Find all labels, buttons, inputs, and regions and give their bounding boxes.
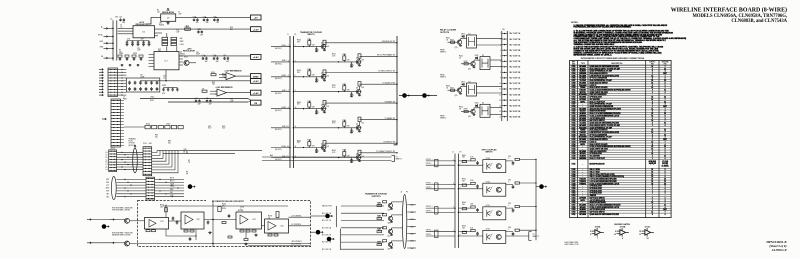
svg-text:R1: R1: [157, 10, 159, 12]
svg-text:SP7800E: SP7800E: [579, 99, 586, 101]
connector E1 (line rows): [109, 150, 117, 172]
svg-text:U731: U731: [572, 137, 576, 139]
svg-text:16: 16: [651, 169, 653, 171]
capacitor C54: [145, 87, 148, 91]
svg-text:Q3: Q3: [321, 143, 323, 145]
wire U22 down: [195, 229, 197, 240]
resistor R92 (opto 2): [471, 182, 475, 184]
svg-text:10: 10: [499, 83, 501, 85]
svg-text:RES: RES: [100, 47, 103, 49]
svg-text:R236: R236: [222, 204, 226, 206]
svg-text:U749: U749: [486, 158, 490, 160]
OCI bus pin numbers: [453, 159, 461, 236]
svg-text:L3+: L3+: [105, 162, 108, 164]
label TCI input 7: [275, 146, 288, 151]
resistor R102: [515, 182, 519, 184]
svg-text:SHEET 2: SHEET 2: [396, 159, 403, 161]
TCI bus top labels: [287, 34, 297, 36]
svg-text:U727: U727: [572, 127, 576, 129]
svg-text:10K: 10K: [361, 59, 364, 61]
label TCI input 8: [275, 156, 288, 161]
wire opto 3 out: [506, 207, 513, 209]
opto input terminal 2: [435, 183, 438, 191]
capacitor C231: [172, 217, 175, 221]
svg-text:8: 8: [652, 137, 653, 139]
svg-text:OUTPUTS: OUTPUTS: [371, 196, 381, 198]
svg-text:47K: 47K: [312, 107, 315, 109]
wire TCO input 1: [341, 205, 384, 207]
svg-text:R306: R306: [342, 120, 346, 122]
wire TCO output: [407, 247, 416, 249]
svg-text:U751: U751: [486, 205, 490, 207]
svg-text:20,21(8): 20,21(8): [662, 163, 668, 165]
wire opto 4 to collector: [519, 229, 536, 231]
svg-text:U703: U703: [572, 71, 576, 73]
svg-text:+9.6V REFERENCE: +9.6V REFERENCE: [224, 71, 242, 73]
junction OCI 7: [454, 231, 455, 232]
capacitor C232: [176, 221, 179, 225]
flag 7 (DC remote): [102, 224, 109, 229]
capacitor C91: [476, 161, 479, 165]
svg-text:11: 11: [664, 205, 666, 207]
svg-text:Q33: Q33: [378, 229, 381, 231]
junction row2-6 a: [130, 193, 131, 194]
svg-text:+2.4V REFERENCE: +2.4V REFERENCE: [215, 86, 233, 89]
net flag +4.8V: [251, 55, 262, 60]
transistor input cell 3: [293, 69, 397, 82]
svg-text:U757: U757: [572, 205, 576, 207]
svg-text:POSITIVE WIRE 1 SELECTED: POSITIVE WIRE 1 SELECTED: [112, 207, 134, 209]
svg-text:U717: U717: [572, 104, 576, 106]
wire into Q22: [114, 242, 124, 244]
wire J1-4: [121, 109, 125, 111]
wire TCI input 4: [271, 91, 290, 93]
svg-text:330: 330: [230, 29, 233, 31]
svg-text:.1: .1: [318, 80, 319, 82]
svg-text:.1UF: .1UF: [230, 100, 234, 102]
resistor R235: [190, 230, 194, 232]
svg-text:R101: R101: [211, 72, 215, 74]
junction OCI 3: [454, 184, 455, 185]
wire row1-1: [117, 151, 143, 153]
flag 8b: [316, 230, 323, 235]
resistor R241: [268, 234, 272, 236]
svg-text:1: 1: [652, 106, 653, 108]
svg-text:+2.4V: +2.4V: [253, 92, 259, 95]
wire TCI input 3: [271, 76, 290, 78]
decoupling capacitor bank outline: [126, 78, 160, 92]
opto input terminal 1: [435, 159, 438, 167]
svg-text:47K: 47K: [347, 60, 350, 62]
svg-text:SHEET 4: SHEET 4: [440, 118, 446, 120]
capacitor C56: [156, 87, 159, 91]
capacitor C42: [134, 81, 137, 85]
svg-text:Q48: Q48: [388, 222, 391, 224]
resistor R242: [274, 234, 278, 236]
svg-text:LM78M05: LM78M05: [579, 115, 586, 117]
svg-text:.1: .1: [508, 158, 509, 160]
svg-text:LINE 2 -: LINE 2 -: [282, 90, 288, 92]
svg-text:.1UF: .1UF: [216, 22, 219, 24]
label TCI input 6: [275, 126, 288, 131]
resistor R98 (opto 4): [462, 231, 466, 233]
svg-text:R220: R220: [146, 124, 150, 126]
capacitor pair C63/C64: [206, 98, 212, 106]
junction OCI 5: [454, 207, 455, 208]
svg-text:U706: U706: [572, 78, 576, 80]
svg-text:+4.8V: +4.8V: [253, 56, 259, 59]
capacitor C235: [189, 237, 192, 241]
svg-text:U732: U732: [572, 139, 576, 141]
relay ladder pin numbers: [499, 33, 501, 118]
svg-text:11: 11: [499, 89, 501, 91]
resistor R243: [222, 222, 226, 224]
svg-text:U21: U21: [160, 221, 163, 223]
capacitor row under U1: [126, 41, 151, 46]
junction SW B+: [112, 36, 113, 37]
label rail1: [150, 97, 154, 99]
capacitor C43: [139, 81, 142, 85]
svg-text:1: 1: [652, 73, 653, 75]
svg-text:L1+: L1+: [105, 152, 108, 154]
svg-text:LINE 4 +: LINE 4 +: [281, 146, 287, 148]
wire ref B in1: [210, 90, 217, 92]
svg-text:R321: R321: [332, 85, 336, 87]
svg-text:R311: R311: [332, 54, 336, 56]
capacitor pair C33/C34: [213, 55, 219, 63]
svg-text:R304: R304: [342, 84, 346, 86]
svg-text:OPTO 2 +: OPTO 2 +: [426, 183, 433, 185]
flag 8a: [325, 214, 332, 219]
svg-text:RX HI: RX HI: [170, 178, 175, 180]
capacitor C46: [156, 81, 159, 85]
svg-text:7: 7: [665, 212, 666, 214]
svg-text:INTEGRATED CIRCUIT POWER AND G: INTEGRATED CIRCUIT POWER AND GROUND CONN…: [581, 57, 645, 60]
svg-text:TX SQUELCH RX: TX SQUELCH RX: [383, 82, 395, 84]
junction J2-6: [121, 83, 122, 84]
pin arrow J2-9: [99, 91, 103, 93]
label R84: [166, 124, 170, 126]
svg-text:C67: C67: [195, 98, 198, 100]
capacitor C94: [476, 232, 479, 236]
op-amp inside U21: [149, 220, 156, 228]
svg-text:R33: R33: [212, 82, 215, 84]
svg-text:12: 12: [664, 179, 666, 181]
svg-text:47K: 47K: [347, 90, 350, 92]
relay cell K1: [448, 33, 502, 49]
svg-text:POSITIVE WIRE 1 KEYED: POSITIVE WIRE 1 KEYED: [112, 209, 131, 211]
regulator IC U2: [154, 52, 179, 70]
net flag +2.4V: [251, 90, 262, 95]
svg-text:.02UF: .02UF: [140, 76, 144, 78]
opto-coupler U749: [483, 158, 506, 173]
svg-text:C41: C41: [140, 75, 143, 77]
svg-text:5: 5: [652, 85, 653, 87]
wire J1-14: [121, 139, 125, 141]
svg-text:R316: R316: [378, 204, 382, 206]
svg-text:1: 1: [652, 209, 653, 211]
table header row: [570, 62, 672, 66]
junction C71: [195, 17, 196, 18]
svg-text:Q1: Q1: [180, 51, 182, 53]
svg-text:10: 10: [664, 80, 666, 82]
wire row2-7: [116, 196, 146, 198]
svg-text:Q3: Q3: [356, 58, 358, 60]
svg-text:47K: 47K: [312, 44, 315, 46]
remote out labels: [291, 215, 302, 245]
svg-text:U739: U739: [572, 156, 576, 158]
svg-text:8: 8: [652, 111, 653, 113]
svg-text:.1: .1: [353, 131, 354, 133]
svg-text:LINE 2 +: LINE 2 +: [281, 75, 287, 77]
junction mid net 2: [212, 243, 213, 244]
svg-text:16: 16: [651, 82, 653, 84]
notes paragraph 2: [574, 29, 687, 46]
svg-text:LM78L: LM78L: [580, 101, 585, 103]
table tall row (microprocessor U741): [570, 160, 672, 168]
label R12: [185, 26, 189, 28]
input arrow wire2 outer: [87, 242, 91, 244]
svg-text:-TX CONTROL: -TX CONTROL: [291, 224, 301, 226]
wire OCI to cell 2 b: [458, 188, 482, 190]
svg-text:U733: U733: [572, 141, 576, 143]
wire pin SW B+ to bus: [108, 36, 113, 38]
svg-text:1: 1: [652, 200, 653, 202]
wire row2-3: [116, 184, 146, 186]
svg-text:OPTO 4 -: OPTO 4 -: [426, 234, 433, 236]
svg-text:Q3: Q3: [356, 153, 358, 155]
svg-text:.1UF: .1UF: [195, 22, 198, 24]
svg-text:16: 16: [651, 115, 653, 117]
svg-text:33PF: 33PF: [133, 53, 137, 55]
svg-text:CR32: CR32: [475, 55, 479, 57]
wire U1 pin 3: [118, 33, 133, 35]
svg-text:C21: C21: [137, 48, 140, 50]
svg-text:L4+: L4+: [105, 167, 108, 169]
svg-text:U755: U755: [572, 200, 576, 202]
svg-text:10K: 10K: [361, 87, 364, 89]
wire OCI input 2: [426, 164, 455, 166]
svg-text:CR12: CR12: [461, 81, 465, 83]
capacitor C95: [512, 161, 515, 165]
op-amp inside U22: [185, 215, 193, 224]
svg-text:+9.6V: +9.6V: [253, 81, 259, 83]
svg-text:1: 1: [652, 188, 653, 190]
svg-text:C104: C104: [180, 44, 184, 46]
resistor R245: [244, 239, 248, 241]
TCI bus line A: [289, 36, 291, 168]
svg-text:WIRELINE INTERFACE BOARD (8-WI: WIRELINE INTERFACE BOARD (8-WIRE): [671, 7, 787, 14]
wire row2-2 out: [155, 181, 184, 183]
junction OCI 2: [458, 165, 459, 166]
wire U23-U24: [262, 225, 265, 227]
svg-text:OPTO 2 -: OPTO 2 -: [426, 187, 433, 189]
resistor R234: [184, 230, 188, 232]
svg-text:U726: U726: [572, 125, 576, 127]
svg-text:U701: U701: [572, 66, 576, 68]
svg-text:1: 1: [652, 92, 653, 94]
wire OCI input 1: [426, 160, 455, 162]
label R236: [222, 208, 226, 210]
wire U2 left pin: [149, 60, 155, 62]
wire TCO input 6: [341, 241, 384, 243]
svg-text:K2: K2: [482, 55, 484, 57]
svg-text:U705: U705: [572, 75, 576, 77]
svg-text:OPTO 4 +: OPTO 4 +: [426, 230, 433, 232]
opto-coupler U750: [483, 182, 506, 197]
svg-text:.1: .1: [318, 151, 319, 153]
flag 5: [539, 184, 546, 189]
svg-text:Q3: Q3: [356, 88, 358, 90]
svg-text:LINE 1 +: LINE 1 +: [281, 45, 287, 47]
svg-text:L2+: L2+: [105, 157, 108, 159]
svg-text:R101: R101: [184, 57, 188, 59]
TCI bus pin numbers: [287, 45, 296, 158]
wire TCO output: [407, 211, 416, 213]
junction row2-4 b: [177, 187, 178, 188]
wire J2-3 out: [118, 74, 127, 76]
svg-text:Q32: Q32: [468, 68, 471, 70]
svg-text:CML 1 X ROM: CML 1 X ROM: [590, 169, 601, 171]
from sheet 4 stubs: [440, 49, 446, 119]
svg-text:R300: R300: [297, 40, 301, 42]
svg-text:U758: U758: [572, 207, 576, 209]
svg-text:RLY 3 OUT 2 B: RLY 3 OUT 2 B: [510, 94, 522, 96]
svg-text:JUMPER: JUMPER: [590, 195, 597, 197]
wire row1-7: [117, 166, 143, 168]
svg-text:8: 8: [665, 82, 666, 84]
ground R245: [244, 243, 247, 246]
svg-text:8: 8: [652, 144, 653, 146]
wire ref B out: [229, 92, 251, 94]
svg-text:7: 7: [665, 108, 666, 110]
svg-text:U719: U719: [572, 108, 576, 110]
TCI right collector line: [394, 36, 397, 145]
tick above +5V regulator: [167, 8, 169, 10]
unused gate U715C: [639, 227, 654, 241]
svg-text:CR44: CR44: [475, 103, 479, 105]
wire Q21 to U21: [130, 220, 145, 222]
wire OCI to cell 1 b: [458, 164, 482, 166]
label TCI input 5: [275, 107, 288, 112]
wire U22-U23: [204, 219, 236, 221]
svg-text:.1: .1: [353, 65, 354, 67]
junction J2-10: [121, 95, 122, 96]
svg-text:(NOTE 2): (NOTE 2): [275, 78, 282, 80]
capacitor pair C73/C74: [203, 17, 209, 25]
svg-text:+5V: +5V: [254, 18, 258, 20]
svg-text:Q31: Q31: [388, 248, 391, 250]
svg-text:R404: R404: [459, 107, 463, 109]
svg-text:7: 7: [665, 174, 666, 176]
svg-text:.1UF: .1UF: [215, 61, 218, 63]
svg-text:U713: U713: [572, 94, 576, 96]
svg-text:U752: U752: [486, 229, 490, 231]
svg-text:7: 7: [665, 153, 666, 155]
svg-text:.1UF: .1UF: [200, 34, 203, 36]
label RC1: [119, 53, 124, 55]
label C21: [127, 39, 131, 41]
wire J1-7: [121, 118, 125, 120]
ground U23 out: [254, 234, 257, 237]
resistor R233: [165, 208, 168, 212]
svg-text:.1UF: .1UF: [137, 50, 141, 52]
wire TCI input 2: [271, 61, 290, 63]
wire opto 1 out: [506, 160, 513, 162]
wire OCI input 5: [426, 207, 455, 209]
resistor pack R81-R86: [145, 125, 183, 128]
wire J1-8: [121, 121, 125, 123]
svg-text:R377: R377: [450, 87, 454, 89]
junction GND: [112, 43, 113, 44]
transistor output cell Q33: [377, 227, 403, 238]
label Q1: [184, 57, 188, 59]
junction TCI 2: [293, 61, 294, 62]
junction C73: [205, 17, 206, 18]
wire row2-6 out: [155, 193, 184, 195]
svg-text:INPUTS: INPUTS: [486, 152, 494, 154]
svg-text:C39: C39: [223, 55, 226, 57]
svg-text:C85: C85: [206, 98, 209, 100]
svg-text:7: 7: [665, 141, 666, 143]
power input bus line B: [116, 20, 118, 60]
unused gate U703A: [590, 226, 604, 241]
svg-text:LOGIC IC: LOGIC IC: [590, 141, 598, 143]
table data rows block 2 (U742 onward): [570, 168, 672, 216]
svg-text:620: 620: [155, 136, 158, 138]
svg-text:.1: .1: [508, 205, 509, 207]
svg-text:U730: U730: [572, 134, 576, 136]
label TCI input 4: [275, 90, 288, 95]
flag 2 (to sheet 2): [188, 184, 195, 189]
svg-text:+9.6V: +9.6V: [253, 29, 259, 31]
capacitor C234: [228, 214, 231, 218]
wire U2 right pin: [179, 64, 183, 66]
wire J2-8 out: [118, 88, 127, 90]
svg-text:14: 14: [647, 237, 649, 240]
svg-text:.1UF: .1UF: [178, 13, 182, 15]
svg-text:U722: U722: [572, 115, 576, 117]
wire into Q21: [114, 219, 124, 221]
resistor stack R21-R26: [162, 37, 177, 45]
connector P102/J102: [146, 177, 155, 200]
svg-text:U721: U721: [572, 113, 576, 115]
junction power stub: [165, 205, 166, 206]
svg-text:C230: C230: [240, 207, 244, 209]
svg-text:TRN9075: TRN9075: [579, 183, 586, 185]
svg-text:R903: R903: [462, 202, 466, 204]
svg-text:R901: R901: [462, 155, 466, 157]
TCO output labels: [410, 205, 414, 250]
wire TCI lower aux 1: [262, 156, 392, 158]
svg-text:R317: R317: [378, 217, 382, 219]
wire Q1 out: [189, 62, 196, 64]
capacitor C53: [139, 87, 142, 91]
opto-coupler U751: [483, 205, 506, 220]
wire TCO output: [407, 226, 416, 228]
junction OCI 1: [454, 160, 455, 161]
svg-text:TP: TP: [186, 153, 188, 155]
svg-text:J3: J3: [401, 192, 403, 194]
op-amp U3B (+2.4V reference): [215, 89, 229, 96]
svg-text:7: 7: [665, 132, 666, 134]
svg-text:GROUND: GROUND: [661, 62, 669, 64]
resistor R97 (opto 3): [462, 208, 466, 210]
label TCI input 3: [275, 75, 288, 80]
svg-text:OPTO 1 +: OPTO 1 +: [426, 159, 433, 161]
wire OCI to cell 4 b: [458, 235, 482, 237]
wire row2-1 out: [155, 178, 184, 180]
